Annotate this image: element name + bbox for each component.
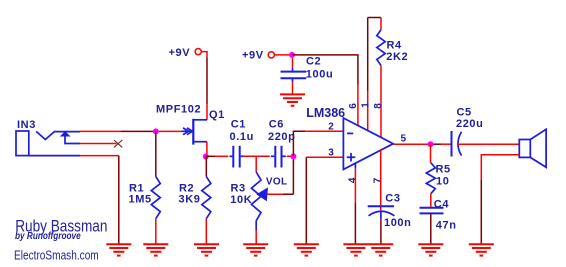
- svg-text:R4: R4: [387, 39, 403, 51]
- resistor R1: [151, 177, 160, 219]
- wire: [215, 155, 228, 157]
- svg-text:6: 6: [348, 103, 359, 109]
- resistor R2: [202, 177, 211, 219]
- svg-text:+9V: +9V: [169, 47, 191, 59]
- ground (R3): [243, 244, 268, 255]
- wire Q1 source down: [206, 142, 208, 157]
- ground (pin 4): [343, 244, 368, 255]
- wire R4 bottom lead to pin 8: [380, 66, 382, 138]
- svg-text:Q1: Q1: [209, 109, 225, 121]
- wire tip (jack to gate): [80, 130, 121, 132]
- svg-text:100u: 100u: [306, 68, 333, 80]
- ground (C2): [280, 94, 305, 105]
- wire to pin 2: [293, 131, 305, 156]
- svg-text:8: 8: [373, 103, 384, 109]
- ground (jack sleeve): [106, 244, 131, 255]
- wire: [357, 85, 359, 126]
- capacitor C3: [368, 206, 395, 218]
- speaker SP1: [519, 129, 546, 167]
- svg-text:ElectroSmash.com: ElectroSmash.com: [14, 249, 99, 262]
- wire pin 4 to ground: [354, 163, 356, 169]
- svg-text:0.1u: 0.1u: [230, 131, 254, 143]
- wire R2 bottom lead: [205, 219, 207, 244]
- open connection X mark: [114, 140, 122, 147]
- wire: [206, 104, 208, 120]
- svg-text:VOL: VOL: [266, 176, 287, 187]
- svg-text:1: 1: [361, 102, 372, 108]
- wire ring: [80, 143, 117, 145]
- svg-text:C1: C1: [231, 118, 246, 130]
- ground (R2): [194, 244, 219, 255]
- svg-text:LM386: LM386: [306, 106, 345, 120]
- svg-text:C5: C5: [457, 107, 472, 119]
- wire pin 3 to ground: [306, 156, 343, 158]
- ground (speaker): [469, 244, 494, 255]
- wire wiper riser: [283, 156, 294, 194]
- power +9V terminal (LM386): [268, 52, 274, 58]
- wire loop top: [368, 17, 381, 19]
- svg-text:1M5: 1M5: [129, 194, 152, 206]
- wire: [118, 156, 120, 244]
- ground (C4): [418, 244, 443, 255]
- svg-text:2K2: 2K2: [386, 51, 408, 63]
- wire pin1 loop up: [367, 92, 369, 131]
- svg-text:3K9: 3K9: [179, 194, 201, 206]
- node junction (C6 / wiper / pin2): [290, 153, 296, 159]
- svg-text:R2: R2: [179, 183, 194, 195]
- wire R4 top lead: [380, 18, 382, 30]
- svg-text:220p: 220p: [268, 131, 295, 143]
- wire: [156, 130, 182, 132]
- wire C6 to node: [287, 155, 294, 157]
- wire R1 bottom lead: [155, 219, 157, 244]
- svg-text:MPF102: MPF102: [156, 103, 201, 115]
- svg-text:C2: C2: [306, 56, 321, 68]
- wire pin 7 down: [380, 150, 382, 206]
- node junction (output / R5 / C5): [428, 141, 434, 147]
- capacitor C2: [292, 58, 294, 68]
- wire R2 top lead: [205, 157, 207, 177]
- svg-text:220u: 220u: [456, 118, 483, 130]
- wire C2 to ground: [292, 82, 294, 94]
- wire R1 top lead: [155, 131, 157, 176]
- wire R3 top lead: [255, 156, 257, 172]
- wire speaker return: [481, 155, 519, 180]
- svg-text:5: 5: [401, 134, 407, 145]
- wire C3 to ground: [380, 218, 382, 243]
- ground (pin 3): [294, 244, 319, 255]
- wire C1 to tee: [244, 155, 270, 157]
- resistor R4: [377, 30, 385, 66]
- wire: [305, 157, 307, 243]
- wire sleeve to ground: [80, 155, 119, 157]
- svg-text:7: 7: [373, 177, 384, 183]
- wire pin 5 output: [393, 143, 428, 145]
- op-amp U1 LM386 triangle: [343, 118, 393, 169]
- wire: [255, 230, 257, 244]
- svg-text:100n: 100n: [384, 217, 411, 229]
- power +9V terminal (Q1 drain): [195, 49, 201, 55]
- capacitor C1: [230, 146, 244, 168]
- svg-text:10: 10: [436, 176, 449, 188]
- resistor R5: [426, 163, 435, 194]
- wire: [441, 143, 452, 145]
- input jack IN3 body: [16, 131, 80, 156]
- svg-text:C4: C4: [434, 198, 450, 210]
- wire: [275, 54, 293, 56]
- wire: [431, 143, 442, 145]
- wire R3 bottom lead: [255, 221, 257, 230]
- svg-text:C3: C3: [385, 192, 400, 204]
- jack tip contact arrow: [60, 131, 71, 136]
- wire: [480, 180, 482, 244]
- svg-text:4: 4: [347, 177, 358, 183]
- ground (C3 / pin 7): [368, 244, 393, 255]
- svg-text:+9V: +9V: [242, 49, 264, 61]
- wire C5 to speaker: [458, 143, 520, 145]
- svg-text:R5: R5: [436, 163, 451, 175]
- svg-text:R1: R1: [129, 183, 144, 195]
- wire: [367, 18, 369, 92]
- svg-text:C6: C6: [269, 118, 284, 130]
- svg-text:IN3: IN3: [17, 119, 36, 131]
- node junction (gate / R1): [153, 128, 159, 134]
- svg-text:47n: 47n: [436, 219, 457, 231]
- potentiometer R3: [251, 172, 261, 221]
- wire wiper: [267, 193, 283, 195]
- svg-text:by Runoffgroove: by Runoffgroove: [15, 230, 81, 241]
- capacitor C5: [452, 131, 462, 157]
- wire: [121, 130, 156, 132]
- wire R5 to C4: [430, 194, 432, 208]
- capacitor C6: [271, 146, 286, 168]
- svg-text:3: 3: [328, 147, 334, 158]
- wire R5 top lead: [430, 144, 432, 163]
- svg-text:R3: R3: [231, 183, 246, 195]
- wire: [206, 58, 208, 104]
- wire to pin 6: [293, 55, 358, 85]
- capacitor C4: [420, 208, 444, 214]
- node junction (source / R2 / C1): [203, 154, 209, 160]
- wire C4 to ground: [430, 213, 432, 243]
- svg-text:10K: 10K: [230, 194, 252, 206]
- wire source row: [206, 155, 215, 157]
- transistor Q1 MPF102 JFET: [182, 119, 207, 145]
- node junction (C2 / pin 6): [289, 52, 295, 58]
- ground (R1): [143, 244, 168, 255]
- wire: [201, 52, 207, 58]
- wire: [305, 130, 343, 132]
- svg-text:2: 2: [328, 121, 334, 132]
- R3 wiper arrow: [256, 187, 268, 201]
